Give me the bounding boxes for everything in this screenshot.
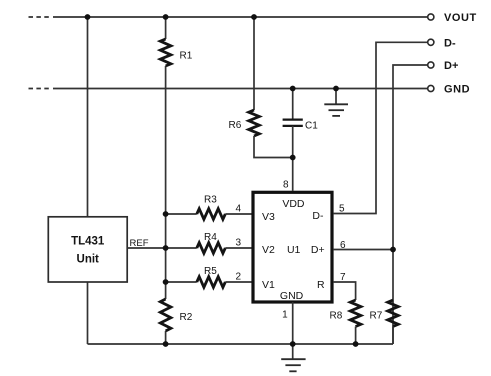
svg-text:Unit: Unit <box>77 254 100 266</box>
svg-text:D+: D+ <box>444 60 458 72</box>
svg-text:D+: D+ <box>311 244 325 256</box>
svg-text:2: 2 <box>235 272 241 283</box>
svg-text:V3: V3 <box>262 211 275 223</box>
svg-text:R7: R7 <box>370 311 383 322</box>
svg-text:U1: U1 <box>287 244 301 256</box>
svg-text:TL431: TL431 <box>71 236 105 248</box>
svg-text:7: 7 <box>340 272 346 283</box>
svg-text:GND: GND <box>444 84 470 96</box>
svg-text:1: 1 <box>282 310 288 321</box>
svg-text:6: 6 <box>340 240 346 251</box>
svg-text:4: 4 <box>235 204 241 215</box>
svg-text:R1: R1 <box>180 51 193 62</box>
svg-text:VOUT: VOUT <box>444 12 477 24</box>
svg-text:D-: D- <box>312 210 324 222</box>
svg-text:8: 8 <box>283 180 289 191</box>
svg-text:C1: C1 <box>305 120 318 131</box>
svg-text:D-: D- <box>444 37 456 49</box>
svg-text:R: R <box>317 279 325 291</box>
svg-text:V1: V1 <box>262 279 275 291</box>
svg-text:VDD: VDD <box>282 198 305 210</box>
svg-text:3: 3 <box>235 238 241 249</box>
svg-text:5: 5 <box>339 204 345 215</box>
svg-text:V2: V2 <box>262 244 275 256</box>
svg-text:R2: R2 <box>180 312 193 323</box>
svg-text:R6: R6 <box>229 120 242 131</box>
svg-text:GND: GND <box>280 290 304 302</box>
svg-text:R8: R8 <box>330 311 343 322</box>
svg-text:R4: R4 <box>204 232 217 243</box>
svg-text:R5: R5 <box>204 266 217 277</box>
svg-text:R3: R3 <box>204 195 217 206</box>
